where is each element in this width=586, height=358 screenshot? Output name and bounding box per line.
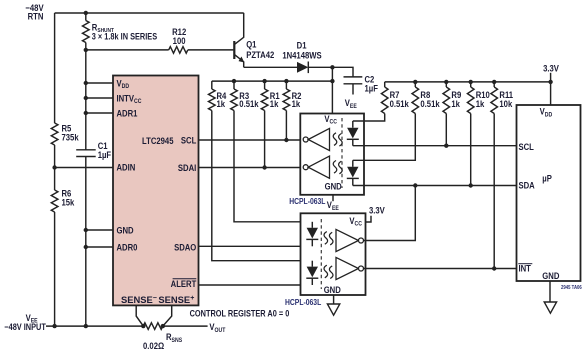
wire R3 to SDAO LED anode	[234, 111, 312, 222]
wire SDAI to opto	[199, 167, 304, 169]
wire GND pin	[86, 229, 113, 231]
wire R10 to SDA	[470, 114, 472, 186]
resistor R2	[283, 81, 290, 110]
op-amp U4 microprocessor body	[517, 105, 581, 281]
wire R4 to ALERT LED anode	[212, 111, 312, 261]
svg-text:LTC2945: LTC2945	[142, 135, 174, 146]
svg-text:3 × 1.8k IN SERIES: 3 × 1.8k IN SERIES	[92, 32, 158, 42]
junction ADR1	[84, 111, 88, 115]
label R5 735k	[62, 123, 79, 143]
svg-text:SENSE+: SENSE+	[158, 294, 194, 305]
pin ADIN	[116, 162, 135, 173]
svg-text:Q1: Q1	[246, 39, 256, 50]
svg-text:1k: 1k	[292, 98, 301, 109]
junction INTVCC	[84, 96, 88, 100]
pin SENSE-	[121, 294, 157, 305]
junction below Rshunt	[84, 48, 88, 52]
wire R8 to LED B	[353, 114, 416, 161]
junction Rsns left	[141, 324, 145, 328]
wire left vertical upper	[54, 13, 56, 123]
wire -48V RTN top rail	[55, 12, 244, 14]
junction D1 output node	[330, 65, 334, 69]
resistor R8	[412, 82, 419, 114]
wire ADR1 pin	[86, 112, 113, 114]
svg-text:100: 100	[173, 35, 186, 46]
wire SCL to opto	[199, 139, 304, 141]
wire R11 to INT	[493, 114, 495, 269]
label R9 1k	[451, 89, 461, 109]
label Q1 PZTA42	[246, 39, 274, 61]
resistor R3	[231, 81, 238, 110]
label D1 1N4148WS	[282, 40, 322, 61]
junction R11 INT	[492, 266, 496, 270]
wire lower opto out A to SDA	[364, 186, 416, 241]
label R11 10k	[499, 89, 513, 109]
wire 3.3V to uP VDD	[550, 82, 552, 105]
wire ADIN pin	[55, 167, 113, 169]
svg-text:GND: GND	[116, 225, 133, 236]
wire SCL uP side	[353, 145, 517, 147]
wire lower opto out B to INT	[364, 268, 517, 270]
wire lower opto gnd stub	[333, 295, 335, 304]
svg-text:10k: 10k	[499, 98, 512, 109]
pin SCL uP	[519, 141, 534, 152]
ground lower opto	[327, 304, 339, 315]
buffer B lower opto	[336, 257, 364, 279]
wire SDA uP side	[353, 185, 517, 187]
net 3.3V top	[543, 63, 559, 82]
net VEE -48V INPUT	[4, 312, 46, 332]
label R1 1k	[270, 90, 280, 109]
isolation barrier lower	[320, 219, 322, 289]
wire supply column lower	[85, 157, 87, 327]
wire ADR0 pin	[86, 246, 113, 248]
label R4 1k	[216, 90, 226, 109]
label VOUT	[209, 321, 225, 334]
svg-text:3.3V: 3.3V	[369, 205, 385, 216]
label LTC2945	[142, 135, 174, 146]
resistor R5	[51, 123, 58, 145]
ground uP	[544, 302, 556, 313]
wire R2 to SCL	[285, 111, 287, 141]
op-amp U3 HCPL-063L lower body	[301, 213, 366, 295]
op-amp U1 LTC2945 body	[113, 76, 199, 306]
wire INTVCC pin	[86, 97, 113, 99]
pin SENSE+	[158, 294, 194, 305]
svg-text:0.51k: 0.51k	[239, 98, 258, 109]
junction ADIN	[52, 165, 56, 169]
svg-text:1k: 1k	[216, 98, 225, 109]
pin INT uP	[518, 263, 532, 274]
svg-text:0.51k: 0.51k	[420, 98, 439, 109]
light arrows A upper	[333, 133, 342, 146]
pin VCC upper opto	[324, 113, 337, 126]
light arrows A lower	[324, 232, 333, 245]
label RSNS 0.02	[143, 331, 182, 351]
capacitor C1	[76, 150, 96, 157]
svg-text:ALERT: ALERT	[171, 278, 197, 289]
capacitor C2	[344, 77, 363, 95]
pin VDD	[116, 78, 129, 91]
LED A lower opto	[306, 222, 318, 247]
isolation barrier upper	[341, 118, 343, 188]
label C1 1uF	[98, 140, 111, 160]
buffer B upper opto	[303, 156, 329, 178]
svg-text:1k: 1k	[270, 98, 279, 109]
wire VDD pin	[86, 82, 113, 84]
svg-text:1k: 1k	[451, 98, 460, 109]
svg-text:SDA: SDA	[519, 180, 535, 191]
wire left vertical lower	[54, 212, 56, 326]
svg-text:735k: 735k	[62, 132, 79, 143]
wire Rshunt to R12	[86, 49, 169, 51]
LED B lower opto	[306, 261, 318, 285]
resistor R7	[381, 82, 388, 114]
pin INTVCC	[116, 93, 141, 106]
svg-text:GND: GND	[325, 181, 342, 192]
svg-text:HCPL-063L: HCPL-063L	[289, 196, 326, 206]
wire SDAO to opto LED	[199, 245, 313, 247]
pin GND upper opto	[325, 181, 342, 192]
label CONTROL REGISTER	[190, 309, 290, 319]
wire uP gnd stub	[549, 281, 551, 302]
junction VDD	[84, 81, 88, 85]
resistor R9	[443, 82, 450, 114]
junction R9 SCL	[444, 144, 448, 148]
wire R1 to SDAI	[264, 111, 266, 168]
pin ALERT	[171, 278, 197, 289]
resistor R12	[169, 47, 188, 54]
net VEE below C2	[345, 97, 357, 110]
label C2 1uF	[364, 74, 377, 94]
svg-text:SDAO: SDAO	[174, 242, 197, 253]
svg-text:1N4148WS: 1N4148WS	[282, 50, 322, 61]
junction R10 rail	[469, 80, 473, 84]
wire SENSE+ lead	[163, 305, 172, 326]
pin SDAO	[174, 242, 197, 253]
wire R12 to Q1 base	[188, 49, 234, 51]
svg-text:SCL: SCL	[519, 141, 534, 152]
svg-text:SCL: SCL	[181, 135, 196, 146]
junction R10 SDA	[469, 183, 473, 187]
svg-text:GND: GND	[542, 270, 559, 281]
svg-text:1µF: 1µF	[364, 83, 377, 94]
net VEE upper opto	[327, 199, 339, 212]
junction 3.3V rail	[548, 80, 552, 84]
junction R1 rail	[262, 79, 266, 83]
pin SCL	[181, 135, 196, 146]
label R7 0.51k	[390, 89, 409, 109]
label R8 0.51k	[420, 89, 439, 109]
LED B upper opto	[347, 160, 359, 185]
LED A upper opto	[347, 121, 359, 146]
junction R1 SDAI	[262, 165, 266, 169]
wire pullup rail left bank	[212, 80, 333, 82]
wire D1 to C2 node	[308, 66, 332, 68]
svg-text:µP: µP	[542, 173, 552, 184]
buffer A lower opto	[336, 229, 364, 251]
junction rail to VCC drop	[330, 79, 334, 83]
wire pullup rail right bank	[385, 81, 551, 83]
pin VCC lower opto	[349, 215, 362, 228]
resistor R10	[467, 82, 474, 114]
label HCPL-063L lower	[285, 297, 322, 307]
svg-text:1µF: 1µF	[98, 149, 111, 160]
resistor R11	[491, 82, 498, 114]
svg-text:GND: GND	[324, 284, 341, 295]
pin ADR0	[116, 242, 137, 253]
svg-text:1k: 1k	[476, 98, 485, 109]
svg-text:HCPL-063L: HCPL-063L	[285, 297, 322, 307]
pin SDAI	[178, 162, 196, 173]
label R3 0.51k	[239, 90, 258, 109]
junction ADR0	[84, 245, 88, 249]
svg-text:SENSE−: SENSE−	[121, 294, 157, 305]
junction left line to VEE rail	[52, 324, 56, 328]
wire left vertical mid	[54, 145, 56, 190]
junction R2 SCL	[284, 138, 288, 142]
pin VDD uP	[540, 106, 553, 119]
wire VCC drop to upper opto	[331, 67, 333, 113]
junction top of Rshunt	[84, 11, 88, 15]
light arrows B lower	[324, 265, 333, 278]
wire R9 to SCL	[445, 114, 447, 146]
pin SDA uP	[519, 180, 535, 191]
resistor RSNS	[143, 323, 163, 330]
wire R7 to LED A	[353, 114, 385, 122]
pin GND lower opto	[324, 284, 341, 295]
svg-text:15k: 15k	[62, 197, 75, 208]
light arrows B upper	[333, 161, 342, 174]
svg-text:ADIN: ADIN	[116, 162, 135, 173]
resistor R6	[51, 190, 58, 212]
junction R2 rail	[284, 79, 288, 83]
pin GND uP	[542, 270, 559, 281]
svg-text:SDAI: SDAI	[178, 162, 196, 173]
junction GND pin	[84, 228, 88, 232]
wire SENSE- lead	[136, 305, 143, 326]
resistor R4	[209, 81, 216, 110]
svg-text:PZTA42: PZTA42	[246, 49, 274, 60]
label uP	[542, 173, 552, 184]
svg-text:3.3V: 3.3V	[543, 63, 559, 74]
label 2945 TA06	[561, 285, 582, 292]
wire VEE input rail	[46, 325, 143, 327]
transistor Q1	[234, 13, 244, 67]
svg-text:−48V INPUT: −48V INPUT	[4, 322, 46, 332]
svg-text:ADR1: ADR1	[116, 108, 137, 119]
net 3.3V lower opto	[366, 205, 386, 222]
wire Q1 emitter to D1	[244, 66, 297, 68]
junction SDA drop	[413, 183, 417, 187]
svg-text:2945 TA06: 2945 TA06	[561, 285, 582, 292]
wire upper opto GND stub	[332, 195, 334, 201]
pin ADR1	[116, 108, 137, 119]
junction R11 rail	[492, 80, 496, 84]
label R10 1k	[476, 89, 490, 109]
svg-text:0.02Ω: 0.02Ω	[143, 340, 164, 351]
diode D1	[297, 62, 308, 74]
op-amp U2 HCPL-063L upper body	[300, 114, 364, 195]
wire node to C2	[332, 67, 353, 77]
buffer A upper opto	[303, 128, 329, 150]
label RSHUNT value	[92, 22, 158, 42]
junction supply column to VEE rail	[84, 324, 88, 328]
svg-text:CONTROL REGISTER A0 = 0: CONTROL REGISTER A0 = 0	[190, 309, 290, 319]
wire ALERT to opto LED	[199, 284, 313, 286]
resistor R1	[261, 81, 268, 110]
junction R3 rail	[232, 79, 236, 83]
junction R9 rail	[444, 80, 448, 84]
label R2 1k	[292, 90, 302, 109]
pin GND	[116, 225, 133, 236]
wire Rsns to VOUT	[163, 325, 208, 327]
svg-text:RTN: RTN	[28, 11, 44, 22]
resistor RSHUNT	[83, 13, 90, 50]
junction R8 rail	[413, 80, 417, 84]
junction Rsns right	[161, 324, 165, 328]
net -48V RTN label	[25, 2, 43, 21]
label R12 100	[172, 26, 186, 46]
label HCPL-063L upper	[289, 196, 326, 206]
svg-text:ADR0: ADR0	[116, 242, 137, 253]
svg-text:0.51k: 0.51k	[390, 98, 409, 109]
label R6 15k	[62, 188, 75, 208]
wire supply column upper	[85, 50, 87, 150]
